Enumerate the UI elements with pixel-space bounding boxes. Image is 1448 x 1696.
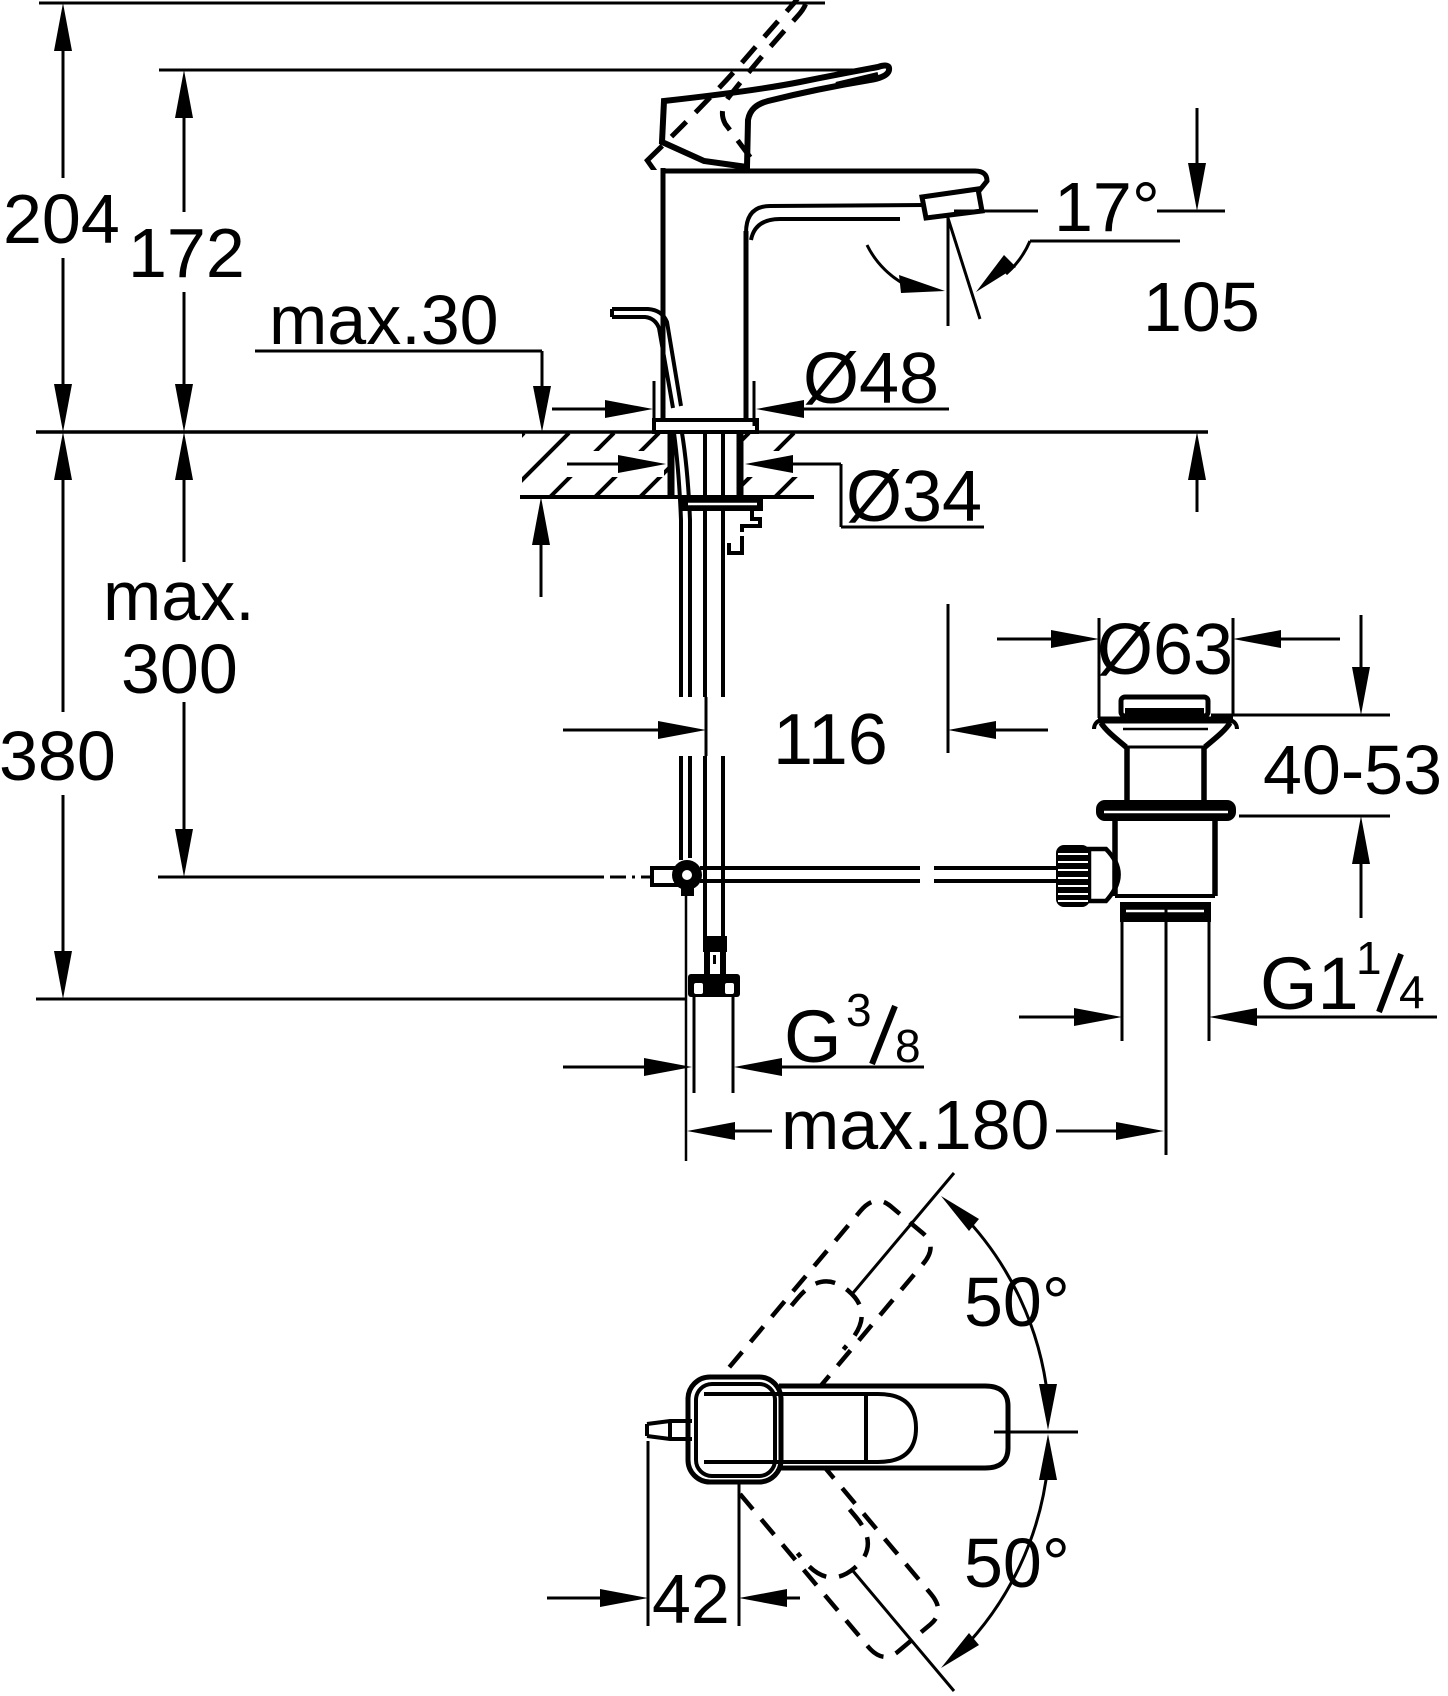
50 degree radial line upper [853,1173,954,1293]
pull rod below deck [674,433,690,860]
valve side socket [1089,849,1119,901]
plan view: dashed handle rotated down 50 [737,1438,946,1665]
50 degree arc upper [960,1212,1048,1400]
svg-text:116: 116 [773,700,888,780]
lever inner tip line [836,74,878,84]
valve bottom band [1120,902,1211,922]
dimension max.300 [103,432,255,877]
plan view: handle arm fill [779,1386,1008,1468]
svg-text:Ø34: Ø34 [846,457,982,537]
valve rubber seal [1096,800,1236,821]
dimension G1 1/4 [1019,932,1437,1026]
hose end reference line (380) [36,998,686,1001]
svg-text:172: 172 [128,214,245,292]
dimension max.180 [687,1086,1164,1164]
svg-text:1: 1 [1356,932,1382,984]
dimension O63 [997,610,1340,690]
svg-text:300: 300 [121,630,238,708]
deck hatching [460,433,884,497]
mounting hole edges [668,433,675,497]
svg-text:max.30: max.30 [269,281,499,359]
dimension 40-53 [1211,615,1442,918]
G3/8 threaded stem [703,936,727,974]
spout aerator [922,189,982,218]
plan view: centerline [994,1431,1078,1434]
base flange [654,420,757,432]
top reference line (max height level) [39,2,825,5]
valve center rod [1165,903,1168,1155]
reference line 172 level [159,69,864,72]
faucet body [663,168,987,421]
svg-text:G: G [784,995,842,1078]
50 degree radial line lower [853,1571,954,1691]
valve body [1115,821,1215,896]
50 degree arc lower [960,1464,1048,1652]
pop-up pull rod (above deck) [612,309,681,408]
dimension 204 [3,3,120,432]
svg-text:42: 42 [652,1560,730,1638]
dimension O48 [552,339,949,426]
dashed lever (raised position) [624,0,865,214]
dash-dot centerline to stub [610,876,650,879]
svg-text:max.: max. [103,557,255,635]
knurled knob [1056,845,1090,907]
actuating rod [700,868,1058,881]
dimension 105 [1143,108,1260,512]
plan view: pull rod knob [647,1421,692,1439]
plan view: base inner line [696,1384,775,1476]
plan view: handle top face [704,1394,916,1462]
plan view: dashed handle rotated up 50 [729,1193,938,1420]
dimension 42 [547,1441,800,1638]
svg-text:50°: 50° [964,1524,1070,1602]
dimension max.30 [255,281,551,597]
svg-text:G1: G1 [1260,942,1359,1025]
dimension 172 [128,70,245,432]
plan view: base outer [688,1377,781,1482]
valve rim [1094,720,1237,729]
ball joint extension line [685,895,688,1161]
svg-text:50°: 50° [964,1263,1070,1341]
deck top line [36,430,1208,434]
svg-text:105: 105 [1143,268,1260,346]
backnut under deck [682,498,763,553]
ball joint [672,860,702,890]
G3/8 hex connector [688,974,740,997]
lever handle (solid) [662,66,889,167]
valve plug cap [1121,697,1208,716]
drain valve: O63 extension lines [1098,618,1101,718]
dimension 380 [0,432,116,999]
svg-text:max.180: max.180 [781,1086,1049,1164]
plan view: handle arm [779,1386,1008,1468]
dimension G3/8 [563,984,924,1078]
rod level reference line (max.300) [158,876,604,879]
dimension 17 degrees [867,168,1225,326]
deck bottom line [520,495,814,499]
dimension 116 [563,604,1048,780]
ball joint stub [652,868,677,885]
plan view: divider line [864,1394,868,1462]
dimension O34 [567,455,984,537]
svg-text:204: 204 [3,180,120,258]
svg-text:17°: 17° [1054,168,1160,246]
svg-text:3: 3 [846,984,872,1036]
svg-text:Ø48: Ø48 [803,339,939,419]
svg-text:4: 4 [1399,966,1425,1018]
svg-text:380: 380 [0,717,116,795]
valve tail extension lines [1121,922,1124,1041]
svg-text:8: 8 [895,1020,921,1072]
G3/8 pipe extension lines [693,997,696,1093]
svg-text:Ø63: Ø63 [1097,610,1233,690]
svg-text:40-53: 40-53 [1263,731,1442,809]
supply pipe below deck [705,433,723,938]
faucet body fill [660,168,748,421]
valve taper neck [1101,723,1230,800]
